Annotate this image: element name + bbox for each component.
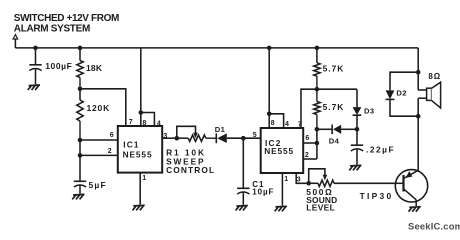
diode D4 — [317, 125, 357, 135]
wire: IC2 pin1 to ground — [281, 173, 283, 206]
svg-text:6: 6 — [110, 132, 114, 139]
svg-text:CONTROL: CONTROL — [166, 165, 215, 175]
label: 500 ohm — [306, 187, 333, 197]
svg-text:SeekIC.com: SeekIC.com — [408, 221, 460, 232]
ground under IC1 pin1 — [133, 205, 145, 210]
svg-text:3: 3 — [297, 177, 301, 184]
svg-text:D3: D3 — [364, 106, 375, 115]
svg-text:120K: 120K — [87, 103, 111, 113]
label: 120K — [87, 103, 111, 113]
node: pin2 tap — [78, 153, 83, 158]
node: D2 bottom — [416, 114, 421, 119]
wire: IC2 pin3 out — [296, 173, 309, 183]
ground under 5uF — [72, 194, 84, 199]
svg-text:4: 4 — [285, 121, 289, 128]
svg-text:10µF: 10µF — [252, 188, 274, 197]
label: 100uF — [45, 61, 72, 71]
resistor 18K — [77, 48, 83, 89]
svg-text:2: 2 — [108, 148, 112, 155]
wire: collector to ground — [415, 200, 417, 206]
wire: D1 to IC2 pin5 — [227, 137, 261, 139]
svg-text:7: 7 — [129, 119, 133, 126]
svg-text:ALARM SYSTEM: ALARM SYSTEM — [14, 23, 90, 34]
label: 18K — [86, 63, 103, 73]
pin label 1 (IC1) — [142, 175, 146, 182]
label: SWEEP — [166, 156, 205, 166]
svg-text:TIP30: TIP30 — [360, 191, 394, 201]
Q1 emitter diagonal — [404, 170, 418, 178]
label: 5uF — [89, 180, 107, 190]
pin label 8 (IC1) — [143, 120, 147, 127]
pin label 3 (IC2) — [297, 177, 301, 184]
wire: rail down right side — [417, 48, 419, 90]
label: SWITCHED +12V FROM — [14, 13, 119, 24]
potentiometer R1 10K loop — [177, 126, 196, 138]
potentiometer 500 ohm loop — [309, 169, 325, 184]
node: pin3/pot junction — [175, 136, 180, 141]
capacitor 100uF — [29, 65, 41, 71]
wire: C1 to ground — [242, 192, 244, 205]
label: R1 10K — [166, 148, 206, 158]
pin label 6 (IC1) — [110, 132, 114, 139]
label: NE555 (IC1) — [123, 149, 153, 159]
svg-text:D4: D4 — [329, 136, 340, 145]
capacitor 5uF — [74, 181, 86, 187]
pot R1 wiper arrow — [193, 133, 198, 139]
svg-text:D2: D2 — [396, 88, 407, 97]
svg-text:D1: D1 — [215, 125, 226, 134]
label: CONTROL — [166, 165, 215, 175]
diode D3 — [353, 89, 362, 129]
label: 8 ohm — [428, 72, 441, 81]
node: C1 tap — [241, 136, 246, 141]
Q1 base wire — [396, 182, 404, 184]
pot 500 wiper arrow — [323, 175, 328, 181]
svg-text:18K: 18K — [86, 63, 103, 73]
wire: IC2 pin7 up — [301, 89, 317, 128]
svg-text:8: 8 — [143, 120, 147, 127]
label: D4 — [329, 136, 340, 145]
svg-text:NE555: NE555 — [123, 149, 153, 159]
svg-text:7: 7 — [298, 122, 302, 129]
pin label 7 (IC1) — [129, 119, 133, 126]
pin label 6 (IC2) — [305, 135, 309, 142]
wire: junction to D3 — [317, 88, 357, 90]
watermark: SeekIC.com — [408, 221, 460, 232]
svg-text:8Ω: 8Ω — [428, 72, 441, 81]
wire: speaker top stub — [418, 89, 426, 91]
op IC2 NE555 box — [261, 128, 304, 173]
node: IC2 pin8 bracket — [267, 112, 272, 117]
label: D2 — [396, 88, 407, 97]
label: LEVEL — [306, 202, 335, 212]
Q1 collector diagonal — [404, 189, 417, 200]
label: .22uF — [366, 144, 395, 154]
svg-text:.22µF: .22µF — [366, 144, 395, 154]
capacitor .22uF — [351, 145, 363, 151]
svg-text:1: 1 — [142, 175, 146, 182]
wire: to IC1 pin2 — [80, 154, 118, 156]
pin label 2 (IC1) — [108, 148, 112, 155]
ground under C1 — [236, 206, 248, 211]
svg-text:100µF: 100µF — [45, 61, 72, 71]
wire: rail to IC1 pin8 — [140, 48, 142, 126]
node: pin6 junction — [315, 141, 320, 146]
svg-text:1: 1 — [284, 176, 288, 183]
svg-text:5µF: 5µF — [89, 180, 107, 190]
pin label 5 (IC2) — [253, 132, 257, 139]
label: D1 — [215, 125, 226, 134]
svg-text:6: 6 — [305, 135, 309, 142]
wire: 5uF to ground — [79, 185, 81, 194]
Q1 base bar — [402, 175, 404, 192]
svg-text:4: 4 — [157, 121, 161, 128]
pin label 1 (IC2) — [284, 176, 288, 183]
node: pin6 tap — [78, 138, 83, 143]
wire: to C1 — [242, 138, 244, 188]
node: pin8/4 bracket — [139, 110, 144, 115]
wire: rail to 100uF cap — [35, 48, 37, 65]
pin label 2 (IC2) — [305, 152, 309, 159]
ground under IC2 pin1 — [275, 206, 287, 211]
wire: +12V top rail — [15, 47, 418, 49]
svg-text:LEVEL: LEVEL — [306, 202, 335, 212]
pin label 8 (IC2) — [271, 120, 275, 127]
node: 18K/120K junction — [78, 87, 83, 92]
wire: pot to base — [334, 182, 396, 184]
svg-text:IC1: IC1 — [123, 140, 140, 150]
wire: speaker bottom stub — [418, 97, 426, 99]
wire: 2-6 tie line — [316, 129, 318, 159]
resistor 5.7K upper — [314, 48, 320, 89]
node: rail to 5.7K — [315, 46, 320, 51]
label: IC2 — [265, 138, 282, 148]
pin label 4 (IC1) — [157, 121, 161, 128]
wire: IC1 pin1 to ground — [139, 173, 141, 205]
diode D2 loop — [386, 72, 419, 116]
wire: junction to .22uF — [356, 129, 358, 145]
svg-text:2: 2 — [305, 152, 309, 159]
input terminal: switched +12V — [13, 35, 18, 39]
svg-text:5.7K: 5.7K — [323, 102, 345, 112]
svg-text:5.7K: 5.7K — [323, 63, 345, 73]
pin label 7 (IC2) — [298, 122, 302, 129]
wire: IC2 pin2 — [303, 158, 317, 160]
wire: pin8-pin4 bracket — [141, 113, 155, 127]
resistor 5.7K lower — [314, 89, 320, 129]
wire: input drop to +12V rail — [14, 39, 16, 48]
label: C1 — [252, 180, 264, 189]
resistor body 500 ohm — [309, 180, 334, 186]
ground under 100uF — [28, 85, 40, 90]
label: IC1 — [123, 140, 140, 150]
diode D1 — [216, 133, 227, 143]
node: 5.7K junction pin7 — [315, 87, 320, 92]
transistor Q1 TIP30 circle — [395, 170, 427, 202]
wire: IC2 pin8-pin4 bracket — [269, 114, 283, 128]
ground under Q1 — [409, 207, 421, 212]
wire: junction to IC1 pin7 — [80, 89, 126, 126]
label: 5.7K upper — [323, 63, 345, 73]
wire: rail to IC2 pin8 — [268, 48, 270, 128]
node: rail to C100uF — [33, 46, 38, 51]
pin label 3 (IC1) — [163, 133, 167, 140]
node: pin3/500 pot junction — [306, 181, 311, 186]
node: D4/2-6 junction — [315, 127, 320, 132]
svg-text:8: 8 — [271, 120, 275, 127]
ground under .22uF — [349, 165, 361, 170]
label: ALARM SYSTEM — [14, 23, 90, 34]
wire: IC2 pin6 — [303, 142, 317, 144]
pin label 4 (IC2) — [285, 121, 289, 128]
wire: 100uF to ground — [35, 68, 37, 84]
label: 5.7K lower — [323, 102, 345, 112]
capacitor C1 10uF — [237, 188, 249, 194]
wire: to IC1 pin6 — [80, 139, 118, 141]
speaker 8 ohm — [427, 82, 441, 108]
node: D2 top — [416, 70, 421, 75]
label: TIP30 — [360, 191, 394, 201]
node: rail to 18K — [78, 46, 83, 51]
node: rail/IC2 pin8 — [267, 46, 272, 51]
op IC1 NE555 box — [118, 126, 162, 173]
label: 10uF — [252, 188, 274, 197]
label: D3 — [364, 106, 375, 115]
node: D3/D4/cap junction — [355, 127, 360, 132]
resistor body R1 — [177, 135, 217, 141]
Q1 emitter arrow — [406, 171, 413, 178]
label: SOUND — [306, 195, 337, 205]
svg-text:5: 5 — [253, 132, 257, 139]
svg-text:NE555: NE555 — [264, 146, 294, 156]
label: NE555 (IC2) — [264, 146, 294, 156]
resistor 120K — [77, 89, 83, 140]
wire: IC1 pin3 out — [162, 137, 177, 139]
wire: down to 5uF — [79, 140, 81, 181]
wire: .22uF to ground — [356, 149, 358, 165]
wire: speaker to transistor — [417, 98, 419, 170]
